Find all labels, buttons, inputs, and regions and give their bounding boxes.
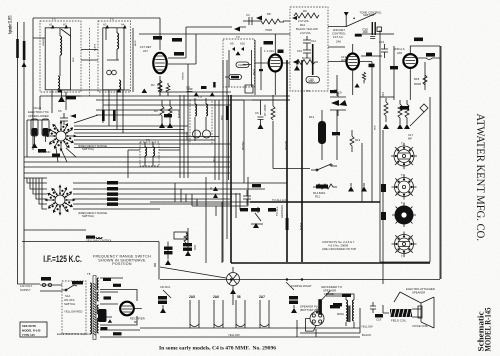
svg-text:R9: R9: [303, 9, 307, 13]
svg-text:BLUE: BLUE: [253, 69, 255, 75]
svg-text:R18: R18: [414, 77, 420, 81]
svg-text:BLACK: BLACK: [362, 333, 371, 337]
svg-text:A1: A1: [49, 23, 53, 27]
svg-text:GREEN: GREEN: [182, 72, 184, 80]
svg-text:BLUE: BLUE: [213, 156, 215, 162]
svg-text:6.3V: 6.3V: [285, 213, 289, 219]
svg-text:GREEN: GREEN: [43, 38, 45, 46]
svg-text:ELECTROSTATIC SHIELD: ELECTROSTATIC SHIELD: [57, 332, 91, 336]
svg-text:HEATERS: HEATERS: [280, 205, 284, 218]
svg-text:R4: R4: [154, 109, 158, 113]
svg-text:2MF: 2MF: [341, 58, 347, 62]
svg-text:TO ALL: TO ALL: [275, 206, 279, 216]
svg-text:YELLOW: YELLOW: [228, 333, 240, 337]
svg-text:PURPLE RIGHT: PURPLE RIGHT: [291, 284, 312, 288]
svg-text:R7 100M: R7 100M: [263, 104, 267, 116]
svg-text:(BOTTOM VIEW): (BOTTOM VIEW): [300, 308, 322, 312]
svg-text:FIELD COIL: FIELD COIL: [391, 319, 407, 323]
svg-text:T.4: T.4: [401, 255, 405, 259]
svg-text:R2: R2: [151, 83, 155, 87]
svg-text:1 1 C20: 1 1 C20: [264, 49, 274, 53]
svg-text:C10: C10: [297, 49, 303, 53]
svg-text:R410Ω: R410Ω: [302, 56, 311, 60]
svg-text:CD ADJ.: CD ADJ.: [160, 285, 171, 289]
svg-text:R13: R13: [355, 138, 361, 142]
svg-text:2A6: 2A6: [213, 295, 219, 299]
svg-text:A: A: [210, 186, 212, 190]
svg-text:YELLOW CONTROL: YELLOW CONTROL: [86, 239, 113, 243]
svg-text:September 25, 1935: September 25, 1935: [8, 15, 14, 34]
svg-text:BLACK: BLACK: [177, 110, 180, 118]
svg-text:SPEAKER: SPEAKER: [412, 290, 425, 294]
svg-text:I.F.=125 K.C.: I.F.=125 K.C.: [43, 254, 82, 264]
svg-text:ARE GROUNDED ON TOP: ARE GROUNDED ON TOP: [322, 247, 356, 251]
svg-text:T.2: T.2: [401, 173, 405, 177]
svg-text:C4: C4: [186, 85, 190, 89]
svg-text:2 M VOL: 2 M VOL: [300, 31, 311, 35]
svg-text:R3: R3: [157, 83, 161, 87]
svg-text:T.1: T.1: [401, 142, 405, 146]
svg-text:2A5: 2A5: [189, 295, 195, 299]
svg-text:R20: R20: [193, 244, 197, 250]
svg-text:T.4: T.4: [198, 95, 202, 99]
svg-text:RED: RED: [221, 115, 223, 120]
svg-text:POSITION: POSITION: [112, 262, 132, 266]
svg-text:In some early models, C4 is 47: In some early models, C4 is 470 MMF. No.…: [159, 346, 276, 352]
svg-text:C14: C14: [379, 40, 385, 44]
svg-text:SWITCH): SWITCH): [82, 214, 94, 218]
svg-text:T.3: T.3: [401, 201, 405, 205]
svg-text:RED: RED: [374, 125, 376, 130]
svg-text:BLACK: BLACK: [299, 222, 302, 230]
svg-text:R12: R12: [309, 115, 315, 119]
svg-text:YELLOW: YELLOW: [285, 140, 287, 150]
svg-text:C5: C5: [58, 109, 62, 113]
svg-text:C4: C4: [246, 13, 250, 17]
svg-text:SUPPLY: SUPPLY: [20, 288, 31, 292]
svg-text:500M: 500M: [414, 82, 422, 86]
svg-text:T.5: T.5: [236, 35, 240, 39]
svg-text:SWITCH: SWITCH: [64, 302, 75, 306]
svg-text:GREEN: GREEN: [186, 132, 188, 140]
svg-text:RED: RED: [73, 57, 75, 62]
svg-text:UPPER LOWER: UPPER LOWER: [28, 114, 49, 118]
svg-text:2A7: 2A7: [259, 295, 265, 299]
svg-text:A9: A9: [230, 42, 234, 46]
svg-text:YELLOW RED: YELLOW RED: [64, 310, 82, 314]
svg-text:1MF: 1MF: [363, 30, 369, 34]
svg-text:CHAS.: CHAS.: [238, 63, 247, 67]
svg-text:TYPE 145: TYPE 145: [22, 333, 35, 337]
svg-text:750M: 750M: [265, 28, 273, 32]
svg-text:Schematic: Schematic: [477, 311, 486, 352]
svg-text:RECTIFIER: RECTIFIER: [130, 317, 145, 321]
svg-text:BROWN: BROWN: [242, 141, 244, 150]
svg-text:BLUE: BLUE: [135, 40, 137, 46]
svg-text:R16: R16: [381, 91, 385, 97]
svg-text:MODEL R-145: MODEL R-145: [22, 329, 41, 333]
svg-text:58: 58: [237, 295, 241, 299]
svg-text:2A5: 2A5: [397, 51, 402, 55]
svg-text:ATWATER KENT MFG. CO.: ATWATER KENT MFG. CO.: [474, 114, 488, 242]
svg-text:2A7: 2A7: [143, 49, 148, 53]
svg-text:MF: MF: [408, 137, 412, 141]
svg-text:600Ω: 600Ω: [337, 312, 344, 316]
svg-text:YELLOW: YELLOW: [361, 325, 373, 329]
svg-text:VOICE COIL: VOICE COIL: [412, 324, 428, 328]
svg-text:2A6: 2A6: [336, 39, 341, 43]
svg-text:80: 80: [134, 320, 138, 324]
svg-text:TO ALL A.F.: TO ALL A.F.: [272, 198, 287, 202]
svg-text:C9: C9: [334, 88, 338, 92]
svg-text:C11: C11: [311, 39, 316, 43]
svg-text:A4: A4: [121, 23, 125, 27]
svg-text:T.6: T.6: [306, 89, 310, 93]
svg-text:C19: C19: [376, 318, 382, 322]
svg-text:A3: A3: [103, 23, 107, 27]
svg-text:SEE NOTE: SEE NOTE: [22, 324, 36, 328]
svg-text:A10: A10: [240, 42, 245, 46]
svg-text:MFD: MFD: [309, 80, 315, 84]
svg-text:R11: R11: [315, 195, 320, 199]
svg-text:C6: C6: [255, 111, 259, 115]
svg-text:C9: C9: [338, 91, 342, 95]
svg-text:T8: T8: [87, 272, 91, 276]
svg-text:R8: R8: [267, 12, 271, 16]
